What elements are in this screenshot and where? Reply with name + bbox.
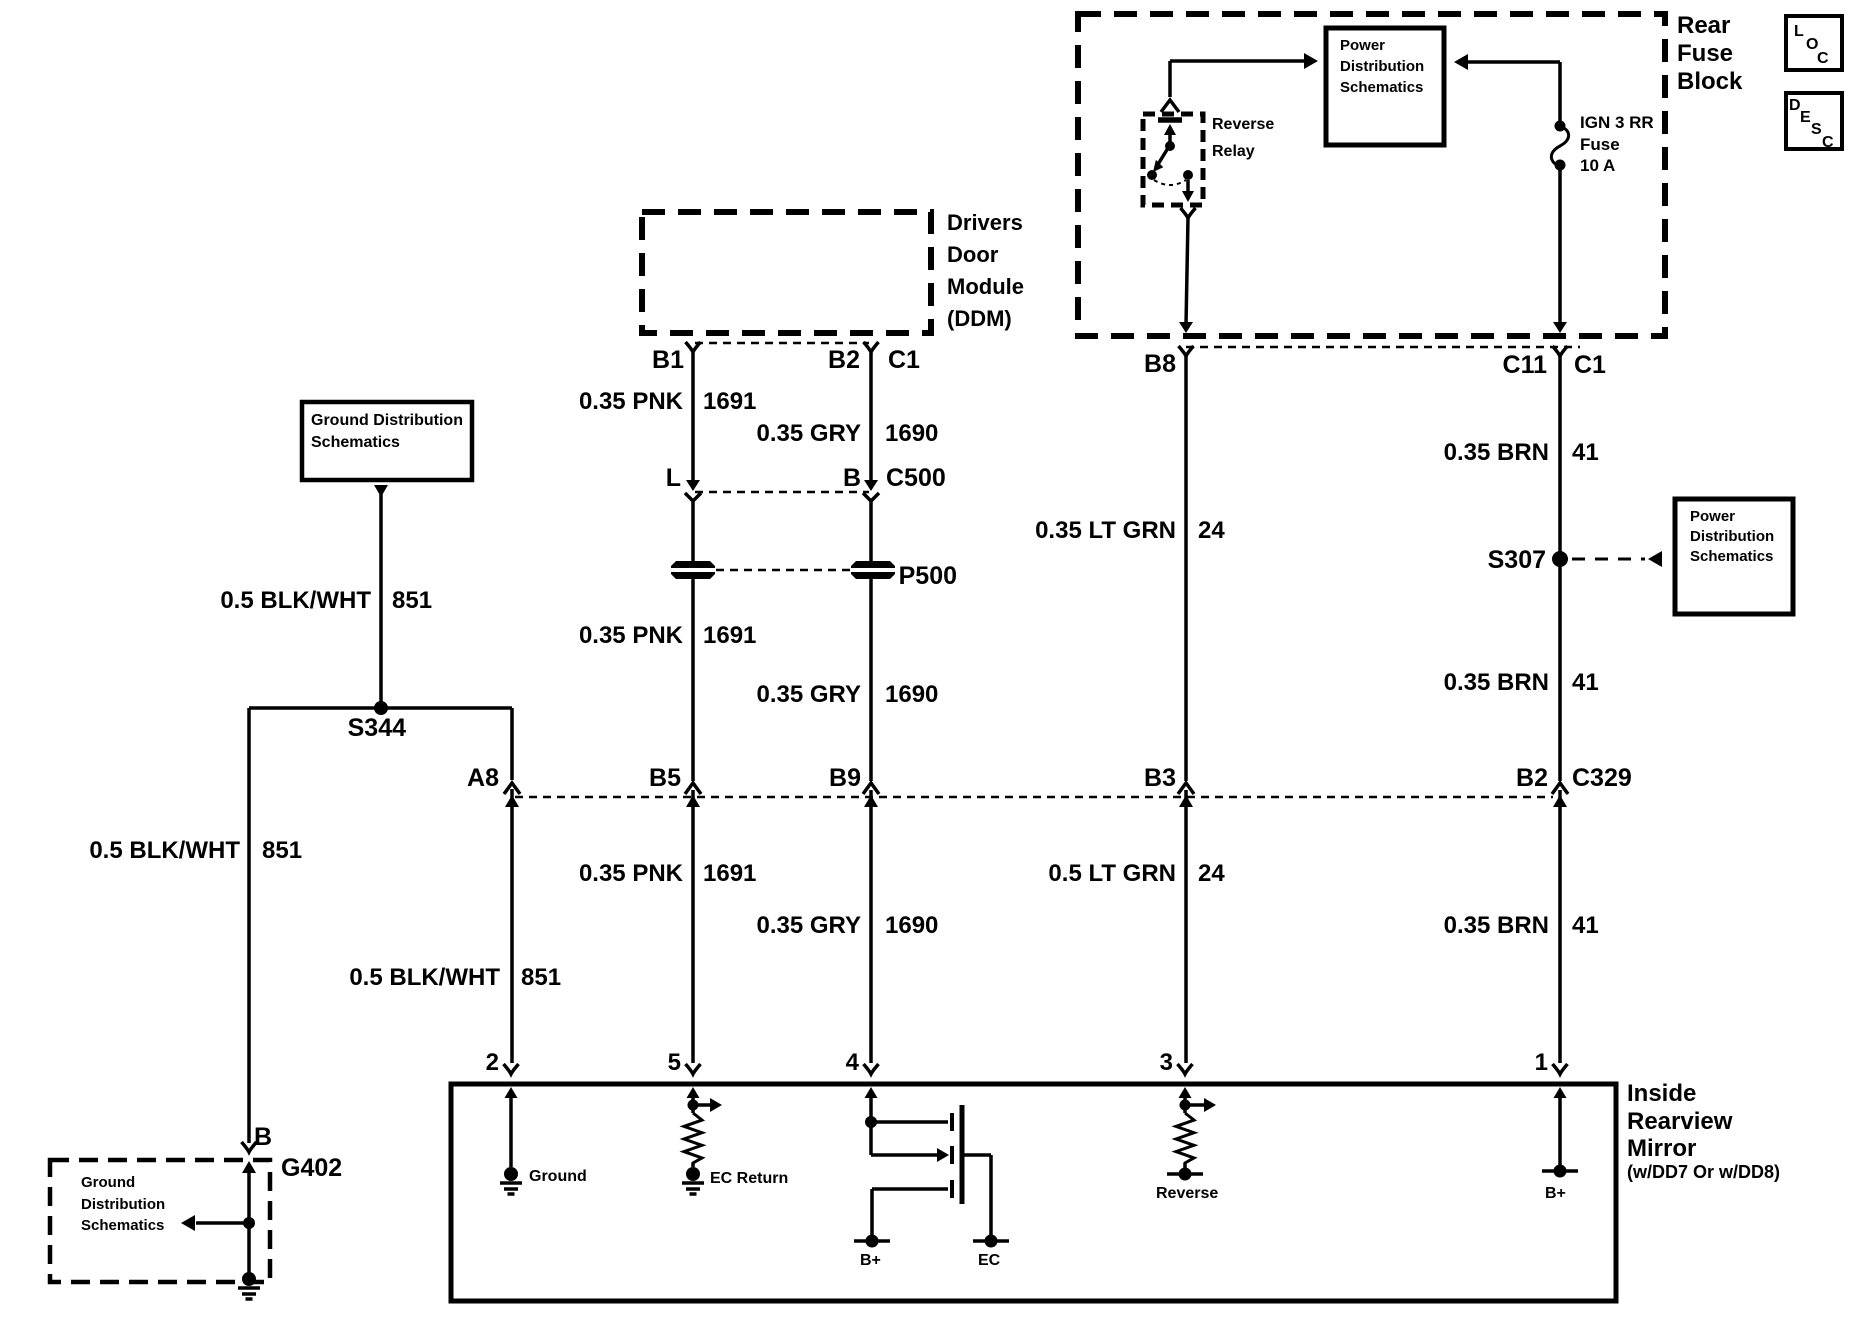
svg-text:C500: C500: [886, 464, 946, 492]
svg-text:24: 24: [1198, 517, 1225, 544]
svg-text:Power: Power: [1340, 37, 1385, 54]
svg-text:C: C: [1822, 134, 1834, 151]
svg-text:D: D: [1789, 97, 1801, 114]
svg-text:10 A: 10 A: [1580, 156, 1615, 175]
svg-text:L: L: [1794, 23, 1804, 40]
svg-text:(w/DD7 Or w/DD8): (w/DD7 Or w/DD8): [1627, 1162, 1780, 1182]
svg-text:0.5 LT GRN: 0.5 LT GRN: [1048, 860, 1176, 887]
svg-text:Ground: Ground: [529, 1168, 587, 1185]
svg-text:Power: Power: [1690, 508, 1735, 525]
svg-text:B+: B+: [860, 1252, 881, 1269]
svg-text:C11: C11: [1503, 351, 1548, 379]
svg-text:41: 41: [1572, 669, 1599, 696]
svg-text:0.35 LT GRN: 0.35 LT GRN: [1035, 517, 1176, 544]
svg-text:0.5 BLK/WHT: 0.5 BLK/WHT: [89, 837, 240, 864]
svg-text:2: 2: [486, 1049, 499, 1076]
svg-text:S344: S344: [348, 714, 406, 742]
svg-text:Fuse: Fuse: [1580, 135, 1620, 154]
svg-text:L: L: [666, 464, 681, 492]
svg-text:4: 4: [846, 1049, 860, 1076]
svg-text:Reverse: Reverse: [1156, 1185, 1218, 1202]
svg-text:41: 41: [1572, 439, 1599, 466]
svg-text:Fuse: Fuse: [1677, 40, 1733, 67]
svg-text:851: 851: [262, 837, 302, 864]
svg-text:C1: C1: [1574, 351, 1606, 379]
svg-text:S: S: [1811, 121, 1822, 138]
svg-text:0.35 BRN: 0.35 BRN: [1444, 439, 1549, 466]
svg-text:1691: 1691: [703, 388, 756, 415]
svg-text:851: 851: [392, 587, 432, 614]
svg-text:B2: B2: [1516, 764, 1548, 792]
svg-text:Ground: Ground: [81, 1174, 135, 1191]
svg-text:0.5 BLK/WHT: 0.5 BLK/WHT: [349, 964, 500, 991]
svg-text:Drivers: Drivers: [947, 210, 1023, 235]
svg-text:41: 41: [1572, 912, 1599, 939]
svg-text:1690: 1690: [885, 420, 938, 447]
svg-text:0.35 PNK: 0.35 PNK: [579, 388, 684, 415]
svg-text:0.35 GRY: 0.35 GRY: [757, 681, 862, 708]
svg-text:Distribution: Distribution: [81, 1196, 165, 1213]
svg-text:B2: B2: [828, 346, 860, 374]
svg-text:Block: Block: [1677, 68, 1743, 95]
svg-text:S307: S307: [1488, 546, 1546, 574]
svg-text:E: E: [1800, 109, 1811, 126]
svg-text:G402: G402: [281, 1154, 342, 1182]
svg-text:0.35 PNK: 0.35 PNK: [579, 622, 684, 649]
svg-text:B9: B9: [829, 764, 861, 792]
svg-text:Schematics: Schematics: [1340, 79, 1423, 96]
svg-text:B: B: [843, 464, 861, 492]
svg-text:Ground Distribution: Ground Distribution: [311, 412, 463, 429]
svg-text:Schematics: Schematics: [311, 434, 400, 451]
svg-text:1690: 1690: [885, 681, 938, 708]
svg-text:0.35 BRN: 0.35 BRN: [1444, 669, 1549, 696]
svg-text:(DDM): (DDM): [947, 306, 1012, 331]
svg-text:3: 3: [1160, 1049, 1173, 1076]
svg-text:Distribution: Distribution: [1690, 528, 1774, 545]
svg-text:Reverse: Reverse: [1212, 116, 1274, 133]
svg-text:Schematics: Schematics: [81, 1217, 164, 1234]
svg-text:C: C: [1817, 50, 1829, 67]
svg-text:Mirror: Mirror: [1627, 1135, 1696, 1162]
svg-text:Relay: Relay: [1212, 143, 1255, 160]
svg-text:B1: B1: [652, 346, 684, 374]
svg-text:Door: Door: [947, 242, 999, 267]
svg-text:B5: B5: [649, 764, 681, 792]
svg-text:851: 851: [521, 964, 561, 991]
svg-text:EC: EC: [978, 1252, 1001, 1269]
svg-text:0.35 PNK: 0.35 PNK: [579, 860, 684, 887]
svg-text:1690: 1690: [885, 912, 938, 939]
svg-text:C1: C1: [888, 346, 920, 374]
svg-text:Module: Module: [947, 274, 1024, 299]
svg-text:Schematics: Schematics: [1690, 548, 1773, 565]
svg-text:0.5 BLK/WHT: 0.5 BLK/WHT: [220, 587, 371, 614]
svg-text:P500: P500: [899, 562, 957, 590]
svg-text:Rear: Rear: [1677, 12, 1730, 39]
svg-text:IGN 3 RR: IGN 3 RR: [1580, 113, 1654, 132]
svg-text:B3: B3: [1144, 764, 1176, 792]
svg-text:B+: B+: [1545, 1185, 1566, 1202]
svg-text:24: 24: [1198, 860, 1225, 887]
svg-text:1691: 1691: [703, 622, 756, 649]
svg-text:0.35 GRY: 0.35 GRY: [757, 912, 862, 939]
svg-text:1: 1: [1535, 1049, 1548, 1076]
svg-text:Rearview: Rearview: [1627, 1108, 1733, 1135]
svg-text:C329: C329: [1572, 764, 1632, 792]
svg-text:EC Return: EC Return: [710, 1170, 788, 1187]
svg-text:A8: A8: [467, 764, 499, 792]
svg-text:0.35 BRN: 0.35 BRN: [1444, 912, 1549, 939]
svg-text:Inside: Inside: [1627, 1080, 1696, 1107]
svg-text:0.35 GRY: 0.35 GRY: [757, 420, 862, 447]
svg-text:1691: 1691: [703, 860, 756, 887]
svg-text:B: B: [254, 1123, 272, 1151]
svg-text:B8: B8: [1144, 350, 1176, 378]
svg-text:Distribution: Distribution: [1340, 58, 1424, 75]
svg-text:5: 5: [668, 1049, 681, 1076]
